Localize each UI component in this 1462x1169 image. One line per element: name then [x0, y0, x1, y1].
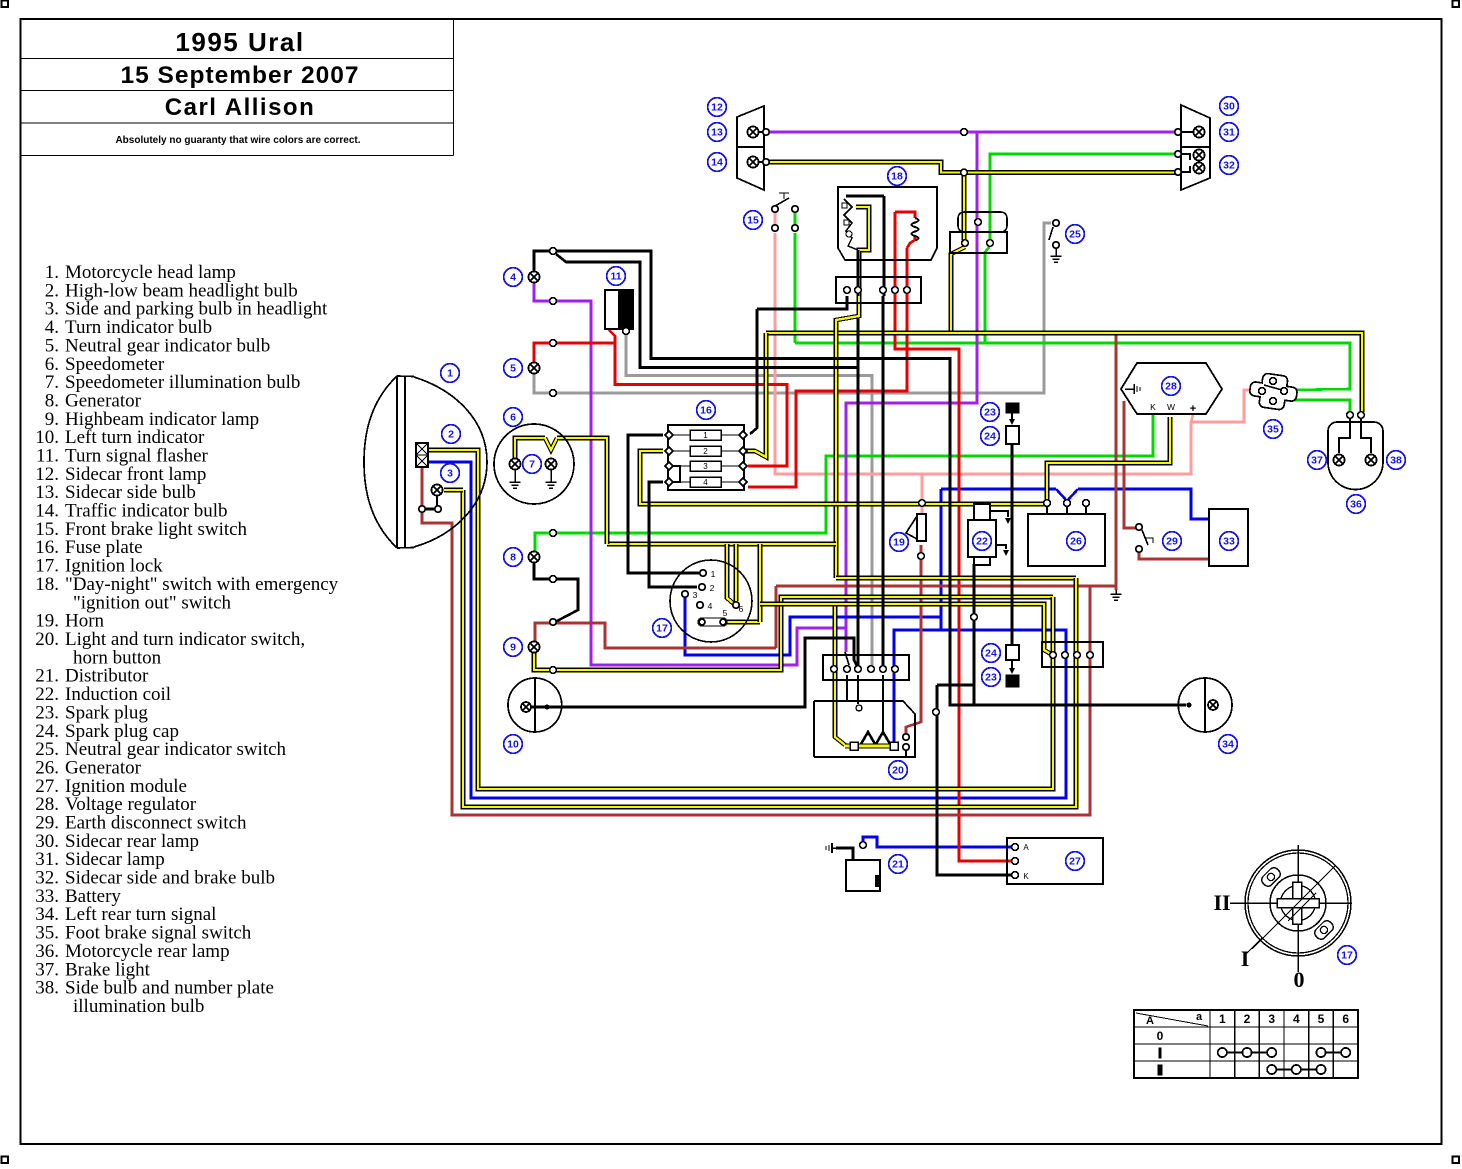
- svg-text:16: 16: [700, 405, 712, 417]
- svg-text:II: II: [1213, 890, 1230, 915]
- svg-text:9: 9: [510, 642, 516, 654]
- svg-text:11: 11: [610, 271, 621, 283]
- svg-text:1: 1: [1219, 1012, 1226, 1026]
- svg-text:25: 25: [1069, 229, 1081, 241]
- svg-text:29: 29: [1166, 536, 1178, 548]
- svg-text:3: 3: [693, 590, 698, 600]
- svg-text:K: K: [1023, 872, 1029, 881]
- svg-text:23: 23: [985, 672, 997, 684]
- svg-text:5: 5: [723, 608, 728, 618]
- svg-text:34: 34: [1222, 739, 1234, 751]
- svg-text:30: 30: [1223, 101, 1235, 113]
- svg-text:37: 37: [1311, 455, 1323, 467]
- svg-text:0: 0: [1157, 1029, 1164, 1043]
- svg-text:18.: 18.: [35, 574, 59, 595]
- svg-text:28: 28: [1165, 381, 1177, 393]
- svg-text:4: 4: [1293, 1012, 1300, 1026]
- svg-text:27: 27: [1069, 856, 1081, 868]
- svg-text:6: 6: [1342, 1012, 1349, 1026]
- svg-text:1: 1: [703, 431, 708, 440]
- svg-text:3: 3: [1268, 1012, 1275, 1026]
- svg-text:W: W: [1167, 402, 1175, 412]
- svg-text:21: 21: [892, 859, 904, 871]
- svg-text:26: 26: [1070, 536, 1082, 548]
- svg-text:1: 1: [711, 569, 716, 579]
- svg-text:2: 2: [448, 429, 454, 441]
- svg-text:Carl Allison: Carl Allison: [165, 94, 315, 121]
- svg-text:19: 19: [893, 537, 905, 549]
- svg-text:Absolutely no guaranty that wi: Absolutely no guaranty that wire colors …: [115, 135, 360, 146]
- svg-text:18: 18: [891, 171, 903, 183]
- svg-text:A: A: [1146, 1015, 1154, 1027]
- svg-text:14: 14: [711, 157, 723, 169]
- svg-text:35: 35: [1267, 424, 1279, 436]
- svg-text:2: 2: [710, 583, 715, 593]
- svg-text:2: 2: [703, 447, 708, 456]
- svg-text:4: 4: [703, 478, 708, 487]
- svg-text:13: 13: [711, 127, 723, 139]
- svg-text:4: 4: [708, 601, 713, 611]
- svg-text:A: A: [1023, 843, 1029, 852]
- svg-text:a: a: [1196, 1011, 1203, 1023]
- svg-text:7: 7: [529, 459, 535, 471]
- svg-text:2: 2: [1244, 1012, 1251, 1026]
- svg-text:K: K: [1150, 402, 1156, 412]
- svg-text:3: 3: [447, 468, 453, 480]
- svg-text:38.: 38.: [35, 978, 59, 999]
- svg-text:+: +: [1190, 403, 1196, 415]
- svg-text:17: 17: [656, 623, 668, 635]
- svg-text:1: 1: [447, 368, 453, 380]
- svg-text:I: I: [1241, 946, 1250, 971]
- svg-text:15 September 2007: 15 September 2007: [121, 62, 360, 89]
- svg-text:23: 23: [984, 407, 996, 419]
- svg-text:8: 8: [510, 552, 516, 564]
- svg-text:22: 22: [976, 536, 988, 548]
- svg-text:10: 10: [507, 739, 519, 751]
- svg-text:20: 20: [892, 765, 904, 777]
- svg-text:5: 5: [1318, 1012, 1325, 1026]
- svg-text:36: 36: [1350, 499, 1362, 511]
- svg-text:4: 4: [510, 272, 516, 284]
- svg-text:20.: 20.: [35, 629, 59, 650]
- svg-text:24: 24: [985, 648, 997, 660]
- svg-text:3: 3: [703, 462, 708, 471]
- svg-text:5: 5: [510, 363, 516, 375]
- svg-text:32: 32: [1223, 160, 1235, 172]
- svg-text:31: 31: [1223, 127, 1235, 139]
- svg-text:1995 Ural: 1995 Ural: [175, 27, 304, 57]
- svg-text:illumination bulb: illumination bulb: [73, 996, 204, 1017]
- svg-text:24: 24: [984, 431, 996, 443]
- svg-text:15: 15: [747, 215, 759, 227]
- svg-text:6: 6: [510, 412, 516, 424]
- svg-text:12: 12: [711, 102, 723, 114]
- svg-text:17: 17: [1341, 950, 1353, 962]
- svg-text:0: 0: [1294, 967, 1305, 992]
- svg-text:38: 38: [1390, 455, 1402, 467]
- svg-text:33: 33: [1223, 536, 1235, 548]
